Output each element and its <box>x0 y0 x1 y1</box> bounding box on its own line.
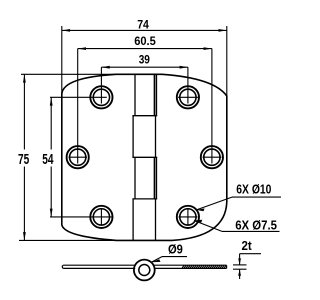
dim 2t vertical line <box>239 254 241 265</box>
crosshair top-right hole <box>178 96 198 98</box>
crosshair bottom-left hole <box>50 216 112 218</box>
crosshair mid-left hole <box>69 156 88 158</box>
dim 60.5 right arrow <box>204 47 212 50</box>
svg-text:Ø9: Ø9 <box>168 241 183 256</box>
hole top-left inner <box>93 89 109 105</box>
crosshair mid-right hole <box>203 156 222 158</box>
dim 74 right extension <box>226 26 228 96</box>
crosshair bottom-right hole <box>179 216 198 218</box>
knuckle segment 4 left edge <box>132 199 134 241</box>
dim 39 left arrow <box>101 66 109 69</box>
knuckle segment 4 right edge <box>155 199 157 241</box>
dim 75 bottom arrow <box>23 232 26 240</box>
side view left leaf bar <box>62 265 135 268</box>
dim 75 top arrow <box>23 74 26 82</box>
svg-text:6X Ø10: 6X Ø10 <box>236 181 271 196</box>
dim 74 line <box>62 29 227 31</box>
svg-text:39: 39 <box>139 53 150 67</box>
dim 60.5 left arrow <box>78 47 86 50</box>
dim 54 line <box>50 97 52 149</box>
svg-text:75: 75 <box>18 151 29 168</box>
side view hatching <box>182 265 226 268</box>
dim 39 line <box>101 66 187 68</box>
dim 75 line <box>23 74 25 149</box>
knuckle segment 1 right edges <box>153 74 155 115</box>
side view barrel outer circle <box>134 260 155 281</box>
svg-text:74: 74 <box>137 18 149 32</box>
side view right leaf bar <box>154 265 227 268</box>
label O9 leader <box>151 257 162 263</box>
dim 60.5 line <box>78 48 212 50</box>
knuckle segment 1 left edge <box>134 74 136 115</box>
hole bottom-right inner <box>180 209 196 225</box>
dim 2t shelf <box>240 253 261 255</box>
dim 74 left arrow <box>62 29 70 32</box>
leader 6X O10 <box>196 197 232 210</box>
hole top-right outer <box>177 86 199 108</box>
dim 54 bottom arrow <box>50 209 53 217</box>
svg-text:6X Ø7.5: 6X Ø7.5 <box>235 217 277 232</box>
knuckle segment 3 right edges <box>153 157 155 199</box>
hole top-left outer <box>90 86 112 108</box>
dim 2t arrows <box>238 258 241 265</box>
side view barrel inner circle (pin) <box>139 265 150 276</box>
knuckle segment 2 left edge <box>132 116 134 158</box>
svg-text:54: 54 <box>42 151 54 168</box>
leader 6X O7.5 <box>194 221 222 232</box>
hole mid-left outer <box>67 146 89 168</box>
knuckle segment 3 left edge <box>134 157 136 199</box>
hole mid-right outer <box>201 146 223 168</box>
dim 54 top arrow <box>50 97 53 105</box>
hinge plate outline <box>62 74 227 240</box>
knuckle joint line 2 <box>132 156 157 158</box>
dim 75 bottom extension <box>19 239 116 241</box>
crosshair top-left hole <box>50 96 107 98</box>
knuckle joint line 1 <box>132 115 157 117</box>
hole bottom-left outer <box>90 206 112 228</box>
knuckle joint line 3 <box>132 198 157 200</box>
hole mid-left inner <box>70 149 86 165</box>
svg-text:2t: 2t <box>242 238 253 253</box>
hole top-right inner <box>180 89 196 105</box>
dim 2t extension ticks <box>233 264 247 266</box>
hole bottom-right outer <box>177 206 199 228</box>
dim 75 top extension <box>21 73 116 75</box>
hole mid-right inner <box>204 149 220 165</box>
svg-text:60.5: 60.5 <box>134 34 156 48</box>
knuckle segment 2 right edge <box>155 116 157 158</box>
dim 39 right arrow <box>180 66 188 69</box>
hole bottom-left inner <box>93 209 109 225</box>
dim 74 right arrow <box>219 29 227 32</box>
dim 74 left extension <box>61 26 63 94</box>
